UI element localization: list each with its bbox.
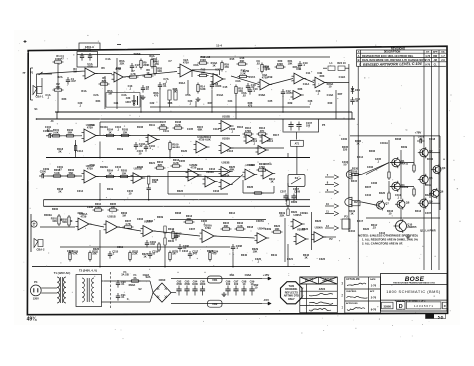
- svg-text:P3: P3: [344, 214, 348, 218]
- svg-text:C212: C212: [209, 167, 216, 171]
- row D cross wire: [170, 219, 266, 221]
- svg-text:C216: C216: [213, 189, 220, 193]
- vertical wire row A mid 1: [116, 58, 118, 109]
- drawing border frame: [27, 46, 447, 315]
- size code box: [382, 302, 394, 309]
- svg-text:68K: 68K: [187, 217, 192, 221]
- svg-text:4739: 4739: [205, 226, 211, 230]
- svg-text:C4A: C4A: [105, 57, 110, 61]
- op-amp U305A: [291, 213, 305, 229]
- resistor R9: [140, 59, 150, 70]
- svg-text:Q6: Q6: [440, 190, 444, 194]
- svg-text:4700: 4700: [184, 282, 190, 286]
- stray mark above border: [79, 43, 100, 50]
- svg-text:470K: 470K: [259, 165, 265, 169]
- svg-text:R418: R418: [429, 137, 436, 141]
- svg-text:D1: D1: [354, 173, 358, 177]
- svg-text:4.7K: 4.7K: [130, 72, 136, 76]
- svg-text:CBA-2: CBA-2: [37, 247, 45, 251]
- svg-text:R34: R34: [96, 99, 101, 103]
- svg-text:8.2K: 8.2K: [175, 123, 181, 127]
- op-amp U102B: [219, 114, 234, 131]
- psu rail top: [171, 278, 262, 280]
- wire U3A-r out: [270, 79, 293, 85]
- notes text block: [358, 234, 418, 246]
- wire K1 down: [296, 187, 298, 200]
- transformer T2 module box: [76, 269, 102, 307]
- svg-text:33K: 33K: [240, 59, 245, 63]
- op-amp U305B: [294, 227, 309, 244]
- bus box left end: [56, 112, 58, 119]
- transistor Q6: [429, 188, 444, 199]
- drop U1B out: [159, 88, 161, 112]
- svg-text:+78V: +78V: [415, 131, 422, 135]
- junction dots row B: [99, 157, 101, 159]
- svg-text:2N3055: 2N3055: [407, 225, 417, 229]
- transistor Q3: [431, 164, 446, 175]
- vertical RC chain row C: [147, 176, 159, 195]
- drop out right: [335, 90, 337, 119]
- svg-text:40409: 40409: [401, 185, 409, 189]
- capacitor C315: [108, 251, 112, 259]
- svg-text:R120: R120: [181, 149, 188, 153]
- drawing number box: [407, 302, 442, 309]
- row B input wire: [54, 135, 82, 137]
- resistor R113: [257, 126, 268, 135]
- svg-text:1K: 1K: [173, 90, 176, 94]
- resistor R205: [119, 169, 130, 178]
- svg-text:ACTUALIZE: ACTUALIZE: [346, 278, 360, 281]
- transistor Q10 output: [394, 219, 417, 233]
- chassis divider dashed line: [110, 272, 112, 308]
- resistor R312: [172, 230, 182, 241]
- svg-text:Q11 LA PWR: Q11 LA PWR: [420, 229, 436, 233]
- capacitor C95: [200, 280, 206, 296]
- svg-text:.01: .01: [121, 282, 125, 286]
- svg-text:C406: C406: [371, 181, 378, 185]
- svg-text:CL: CL: [434, 64, 438, 67]
- svg-text:APP: APP: [433, 51, 438, 54]
- capacitor C92: [176, 280, 182, 296]
- op-amp U101B: [146, 135, 160, 145]
- svg-text:1 2 3 4 5 6 7 1: 1 2 3 4 5 6 7 1: [414, 304, 434, 308]
- capacitor C10: [248, 87, 258, 95]
- drop U2A: [140, 95, 142, 112]
- svg-text:1. ALL RESISTORS ARE IN OHMS,: 1. ALL RESISTORS ARE IN OHMS, 1/4W, 5%: [362, 238, 418, 242]
- svg-text:R18A: R18A: [259, 93, 266, 97]
- svg-text:4739: 4739: [87, 166, 93, 170]
- svg-text:10K: 10K: [201, 70, 206, 74]
- svg-text:6.8K: 6.8K: [200, 87, 206, 91]
- output arrow +15V: [262, 277, 271, 280]
- svg-text:C30: C30: [126, 97, 131, 100]
- resistor R29: [221, 61, 230, 72]
- svg-text:austin: austin: [172, 145, 180, 149]
- row D out wire: [324, 236, 336, 238]
- input module A1 box: [77, 52, 98, 68]
- op-amp U3B-r: [292, 67, 307, 84]
- svg-text:ONLY: ONLY: [288, 298, 295, 301]
- svg-text:Q5: Q5: [429, 176, 433, 180]
- resistor R316: [235, 221, 246, 230]
- resistor R330a: [69, 251, 71, 262]
- drop U3 right: [282, 96, 284, 112]
- transistor Q5: [418, 174, 433, 185]
- svg-text:P4: P4: [34, 280, 38, 284]
- resistor R13: [198, 68, 209, 77]
- capacitor C305b: [174, 233, 178, 241]
- gate B out wire: [362, 202, 377, 205]
- svg-text:2: 2: [341, 294, 343, 298]
- output stage vwire right mid: [429, 140, 431, 198]
- wire R1 down: [57, 63, 59, 90]
- svg-text:10K: 10K: [275, 227, 280, 231]
- svg-text:U103A: U103A: [222, 136, 230, 140]
- svg-text:470K: 470K: [245, 129, 251, 133]
- ground row A 1: [141, 95, 146, 100]
- svg-text:22K: 22K: [120, 62, 125, 66]
- row C feedback loop wires: [243, 180, 274, 194]
- svg-text:R119: R119: [117, 147, 124, 151]
- svg-text:R341: R341: [271, 253, 278, 257]
- svg-text:4739: 4739: [199, 137, 205, 141]
- resistor R18: [235, 85, 244, 96]
- svg-text:10K: 10K: [92, 253, 97, 256]
- op-amp U102A: [194, 135, 210, 153]
- svg-text:C25: C25: [268, 99, 273, 103]
- capacitor C3: [88, 53, 92, 61]
- svg-text:22K: 22K: [280, 214, 285, 218]
- svg-text:R19: R19: [268, 75, 273, 79]
- op-amp U201B: [131, 167, 146, 184]
- parts list table frame: [300, 277, 338, 313]
- output stage supply rail: [350, 135, 440, 137]
- resistor R10: [151, 58, 160, 69]
- svg-text:CR1: CR1: [355, 88, 361, 92]
- svg-text:R409: R409: [401, 145, 408, 149]
- op-amp U304A: [255, 227, 270, 244]
- svg-text:R300: R300: [52, 207, 59, 211]
- shield box U1 network: [106, 93, 140, 108]
- svg-text:C114: C114: [77, 149, 84, 153]
- bus row A lower 1: [55, 111, 352, 113]
- op-amp U104B: [260, 135, 273, 144]
- op-amp U1A: [83, 62, 98, 79]
- svg-text:C307: C307: [189, 227, 196, 231]
- svg-text:R222: R222: [177, 189, 184, 193]
- svg-text:P5: P5: [322, 123, 326, 127]
- svg-text:C22: C22: [150, 101, 155, 105]
- svg-text:.01: .01: [121, 295, 125, 299]
- row D drop 1: [99, 230, 101, 267]
- svg-text:R413: R413: [415, 209, 422, 213]
- svg-text:R27: R27: [338, 92, 343, 96]
- svg-text:10K: 10K: [253, 250, 258, 254]
- svg-text:68K: 68K: [230, 168, 235, 172]
- resistor R315: [221, 221, 232, 230]
- svg-text:TONE: TONE: [133, 52, 140, 56]
- boxed pot R31: [168, 90, 171, 100]
- svg-text:R414: R414: [357, 155, 364, 159]
- svg-text:C214: C214: [77, 189, 84, 193]
- svg-text:C311: C311: [117, 245, 124, 249]
- resistor R317: [158, 242, 160, 252]
- bus row A lower 2: [37, 118, 356, 120]
- relay K1 box: [288, 175, 305, 187]
- svg-text:4739: 4739: [183, 60, 189, 64]
- svg-text:4.7K: 4.7K: [72, 253, 77, 256]
- capacitor C98: [241, 280, 247, 296]
- row D vwire mid right: [284, 218, 286, 262]
- svg-text:R17A: R17A: [249, 75, 256, 79]
- wire U2A out: [192, 71, 218, 76]
- resistor R20: [275, 59, 286, 68]
- svg-text:4739: 4739: [77, 211, 83, 215]
- svg-text:R2A: R2A: [57, 75, 62, 79]
- svg-text:R340: R340: [241, 253, 248, 257]
- svg-text:R323: R323: [315, 219, 322, 223]
- output stage wire 3: [439, 136, 441, 210]
- svg-text:C11A: C11A: [303, 82, 310, 86]
- op-amp U2A: [178, 58, 195, 77]
- svg-text:R24 10: R24 10: [337, 61, 346, 65]
- svg-text:C300: C300: [87, 205, 94, 209]
- resistor R102: [65, 128, 76, 137]
- output stage vwire Q1-Q4: [400, 150, 402, 199]
- revision column line 1 extension: [423, 66, 425, 270]
- components inside shield box: [125, 95, 137, 106]
- wire LS1 up: [41, 78, 43, 87]
- boxed pot R32: [174, 90, 177, 100]
- svg-text:R308: R308: [175, 211, 182, 215]
- svg-text:4739: 4739: [115, 67, 121, 71]
- vertical wire row A mid 2: [104, 76, 106, 109]
- transistor Q1: [390, 157, 409, 168]
- svg-text:4739: 4739: [89, 163, 95, 167]
- capacitor C18: [246, 83, 256, 91]
- svg-text:R39: R39: [288, 101, 293, 105]
- svg-text:APPROVED: APPROVED: [346, 302, 358, 305]
- row C drop 3: [287, 183, 289, 200]
- svg-text:U203B: U203B: [221, 160, 229, 164]
- resistor R101: [51, 128, 62, 137]
- row B drop 2: [169, 150, 171, 158]
- svg-text:A1 EQ: A1 EQ: [83, 47, 91, 51]
- svg-text:2K: 2K: [58, 190, 61, 194]
- svg-text:68K: 68K: [198, 128, 203, 132]
- svg-text:R328: R328: [207, 249, 214, 253]
- row C feedback box wires: [168, 172, 228, 195]
- row D wire 2: [90, 224, 105, 227]
- resistor R105: [120, 128, 131, 137]
- svg-text:47K: 47K: [260, 129, 265, 133]
- op-amp U4A-r: [291, 91, 304, 100]
- wire plug to xfmr neutral: [41, 292, 53, 294]
- svg-text:R406: R406: [369, 149, 376, 153]
- psu wire 4: [150, 293, 153, 302]
- svg-text:1/2W: 1/2W: [243, 69, 250, 73]
- capacitor C200: [39, 169, 47, 178]
- drop U2B mid: [211, 90, 213, 112]
- connector bracket P1: [30, 68, 32, 100]
- svg-text:4.7K: 4.7K: [125, 222, 131, 226]
- rev letter box: [443, 302, 448, 309]
- resistor R403: [388, 191, 390, 201]
- svg-text:.47: .47: [41, 172, 45, 176]
- svg-text:10K: 10K: [56, 85, 61, 89]
- output arrow -15V: [262, 302, 271, 305]
- svg-text:2. ALL CAPACITORS ARE IN UF.: 2. ALL CAPACITORS ARE IN UF.: [362, 242, 403, 246]
- op-amp U103B: [244, 135, 257, 144]
- row C bottom bus: [44, 199, 311, 201]
- svg-text:120V: 120V: [33, 297, 39, 301]
- svg-text:U301B: U301B: [108, 215, 116, 219]
- resistor R5: [99, 76, 110, 85]
- svg-text:Q8: Q8: [406, 201, 410, 205]
- regulator VR2 box: [208, 300, 223, 307]
- row D wire 4: [154, 231, 200, 236]
- psu rail bottom: [171, 303, 262, 305]
- row D drop 2: [164, 252, 166, 267]
- svg-text:C12A: C12A: [339, 75, 346, 79]
- svg-text:100: 100: [234, 282, 239, 286]
- svg-text:R326: R326: [93, 247, 100, 251]
- svg-text:R410: R410: [427, 157, 434, 161]
- svg-text:C2A: C2A: [93, 93, 98, 97]
- svg-text:A: A: [358, 54, 360, 58]
- svg-text:C312: C312: [182, 249, 189, 253]
- driver gate B: [345, 197, 362, 207]
- svg-text:1304: 1304: [125, 101, 131, 104]
- size letter D box: [397, 302, 406, 310]
- resistor R2: [53, 82, 64, 91]
- svg-text:C109: C109: [43, 129, 50, 133]
- svg-text:R21A: R21A: [293, 65, 300, 69]
- svg-text:R114: R114: [267, 139, 274, 143]
- svg-text:R11A: R11A: [179, 81, 186, 85]
- svg-text:1K: 1K: [350, 212, 353, 216]
- regulator VR1 box: [208, 276, 223, 283]
- corner registration tick top-left: [24, 41, 27, 43]
- resistor R14: [197, 83, 206, 94]
- revision table frame: [357, 50, 447, 66]
- svg-text:15K: 15K: [123, 130, 128, 134]
- gate A out wire: [362, 163, 390, 175]
- resistor R324: [272, 224, 283, 233]
- resistor R402: [413, 163, 415, 173]
- driver gate A: [346, 170, 361, 179]
- op-amp U301B: [104, 215, 121, 234]
- svg-text:4700: 4700: [176, 282, 182, 286]
- filter module box row B: [283, 119, 319, 132]
- svg-text:C412: C412: [379, 231, 386, 235]
- svg-text:1M: 1M: [122, 214, 126, 218]
- svg-text:C: C: [359, 63, 361, 67]
- svg-text:R37: R37: [208, 101, 213, 105]
- row A feedback loop U2B: [192, 70, 219, 77]
- svg-text:470: 470: [212, 253, 217, 256]
- junction dots row C: [99, 199, 101, 201]
- svg-text:.33: .33: [372, 226, 376, 230]
- svg-text:B: B: [358, 58, 360, 62]
- svg-text:40411: 40411: [401, 161, 409, 165]
- row C drop 2: [148, 195, 150, 200]
- svg-text:6.8K: 6.8K: [205, 138, 211, 142]
- transducer LS2: [34, 239, 45, 252]
- output stage wire 2: [413, 136, 415, 164]
- svg-text:1K: 1K: [143, 255, 146, 259]
- svg-text:C401A: C401A: [380, 141, 388, 145]
- capacitor C93: [184, 280, 190, 296]
- output stage bottom wire: [366, 217, 440, 219]
- svg-text:R220A: R220A: [100, 165, 108, 169]
- svg-text:9-76: 9-76: [371, 307, 377, 311]
- svg-text:10K: 10K: [288, 62, 293, 66]
- vertical resistor chain row D: [164, 226, 175, 252]
- svg-text:R110A: R110A: [100, 125, 108, 129]
- svg-text:R90A: R90A: [129, 283, 136, 287]
- capacitor C103: [134, 142, 146, 150]
- svg-text:1K: 1K: [270, 180, 273, 184]
- potentiometer R302: [61, 215, 73, 227]
- op-amp U4B-r: [313, 71, 328, 88]
- parts list column line: [306, 284, 308, 313]
- wire U2B out: [231, 76, 259, 85]
- svg-text:C400: C400: [341, 137, 348, 141]
- svg-text:R206: R206: [137, 165, 144, 169]
- connector P3 box: [342, 219, 350, 229]
- svg-text:C116: C116: [227, 149, 234, 153]
- svg-text:.22: .22: [139, 144, 143, 148]
- svg-text:10K: 10K: [111, 205, 116, 209]
- svg-text:R421: R421: [425, 193, 432, 197]
- capacitor C5: [158, 82, 167, 90]
- transistor Q9: [418, 198, 433, 209]
- svg-text:C24: C24: [228, 99, 233, 103]
- svg-text:C92A: C92A: [143, 273, 150, 277]
- svg-text:R91: R91: [230, 273, 235, 277]
- op-amp U1B: [112, 66, 126, 82]
- svg-text:5.6K: 5.6K: [53, 131, 59, 135]
- svg-text:1K: 1K: [172, 253, 175, 256]
- svg-text:REVISED PER ECO 1801-104 PROD: REVISED PER ECO 1801-104 PROD REL: [362, 54, 414, 58]
- svg-text:82K: 82K: [158, 163, 163, 167]
- svg-text:R33: R33: [62, 97, 67, 101]
- svg-text:D: D: [399, 304, 403, 310]
- AC plug P4: [30, 280, 41, 301]
- resistor R304: [93, 202, 104, 211]
- wire vertical to output stage: [348, 64, 350, 232]
- wire row A main: [124, 72, 178, 78]
- svg-text:1000: 1000: [200, 282, 206, 286]
- row A sub bus: [150, 106, 310, 108]
- svg-text:.01: .01: [419, 137, 423, 141]
- input jack J2: [31, 221, 37, 227]
- drop C8a: [195, 101, 197, 107]
- diode CR1: [351, 86, 361, 94]
- op-amp U202B: [186, 163, 202, 181]
- svg-text:C309: C309: [265, 227, 272, 231]
- svg-text:CR90: CR90: [159, 278, 166, 282]
- resistor R204: [105, 169, 116, 178]
- svg-text:.02: .02: [242, 94, 246, 98]
- svg-text:R221: R221: [149, 161, 156, 165]
- svg-text:R310: R310: [168, 227, 175, 231]
- svg-text:33K: 33K: [224, 224, 229, 228]
- output stage hwire 2: [390, 185, 414, 187]
- op-amp U201A: [82, 164, 99, 183]
- op-amp U104A: [256, 146, 269, 155]
